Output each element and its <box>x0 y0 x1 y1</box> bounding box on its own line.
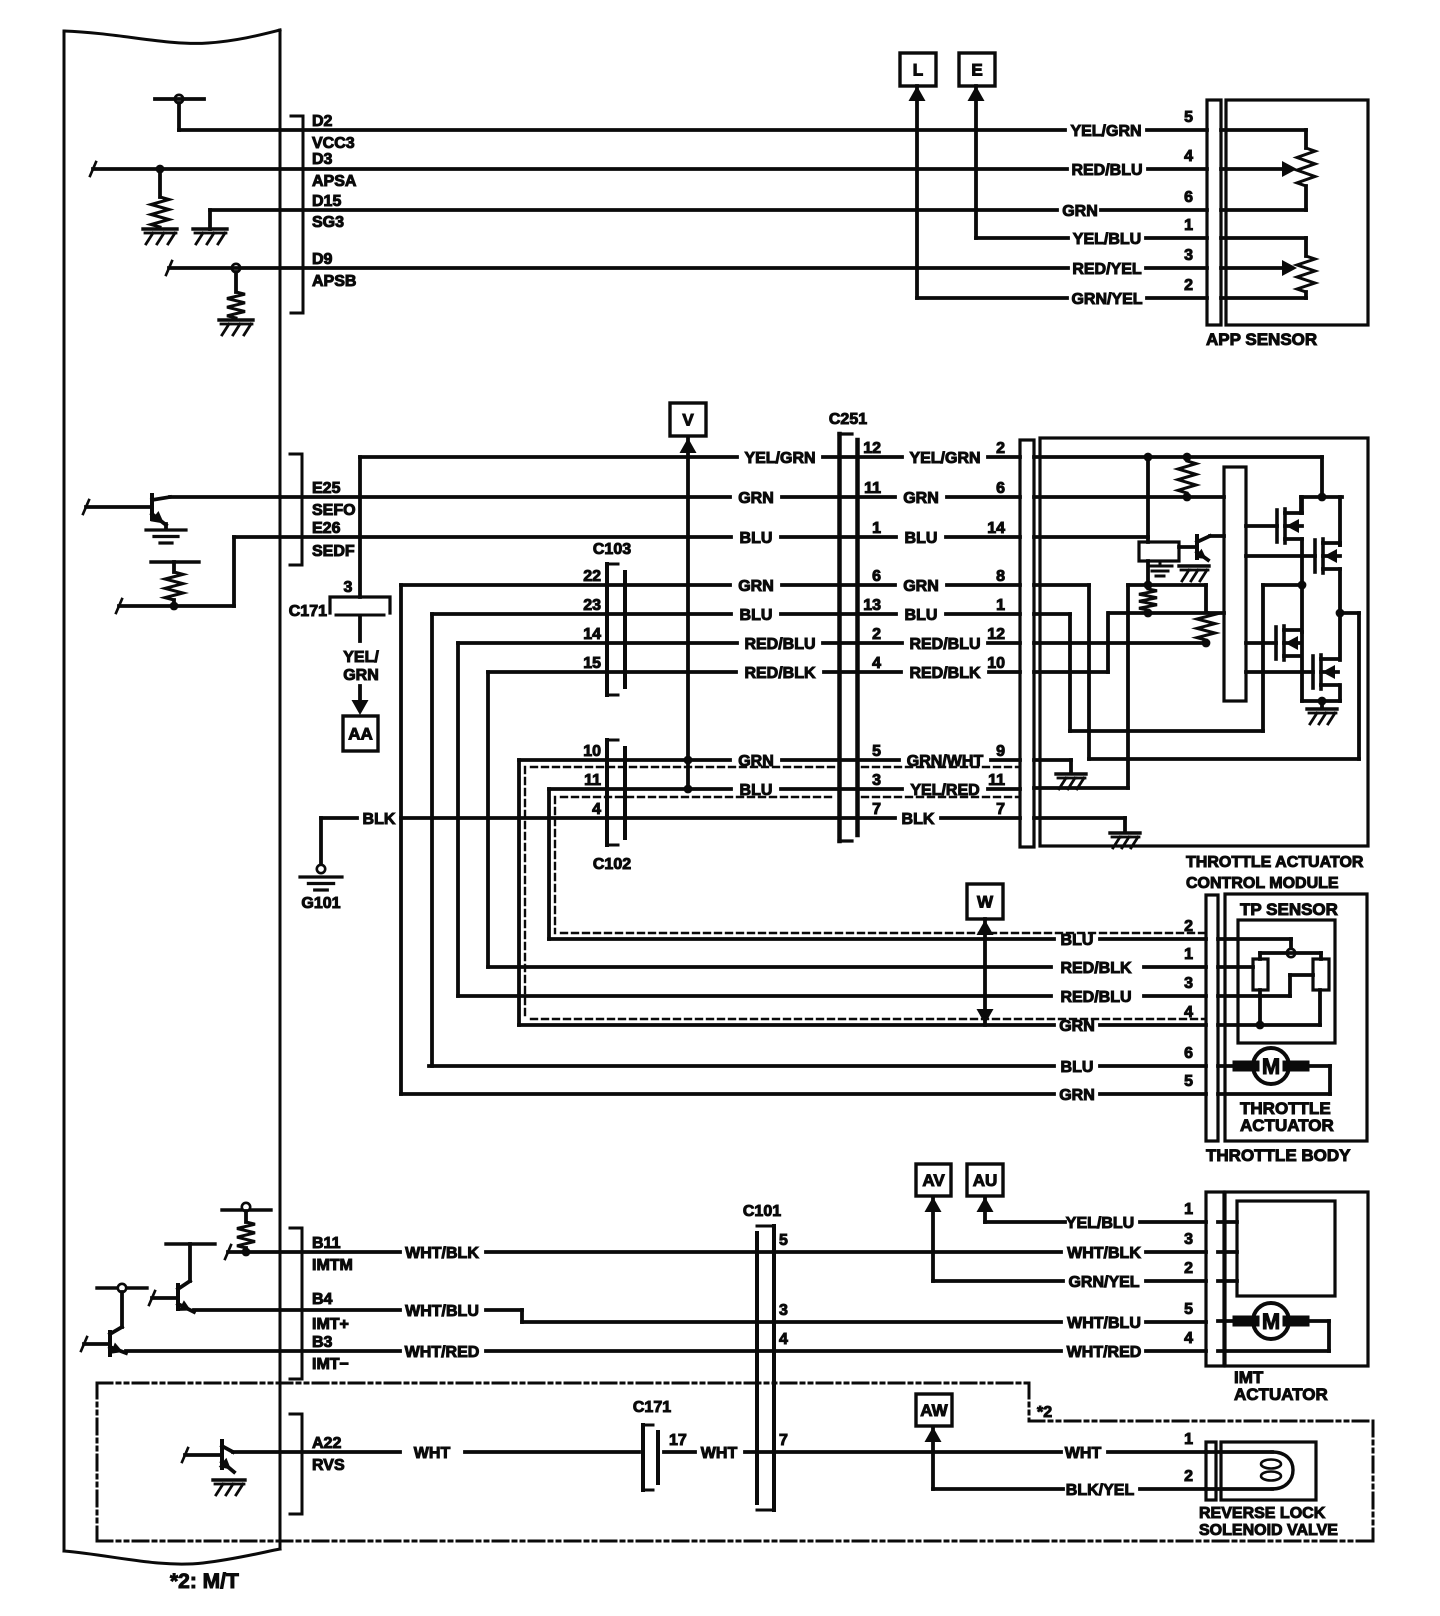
svg-text:E25: E25 <box>312 480 341 497</box>
svg-text:AU: AU <box>973 1171 998 1190</box>
svg-text:BLU: BLU <box>740 607 773 624</box>
svg-text:15: 15 <box>583 655 601 672</box>
svg-text:E: E <box>971 61 982 80</box>
svg-text:B3: B3 <box>312 1334 333 1351</box>
svg-text:3: 3 <box>872 772 881 789</box>
svg-text:YEL/BLU: YEL/BLU <box>1073 231 1141 248</box>
svg-text:22: 22 <box>583 568 601 585</box>
svg-text:RED/BLU: RED/BLU <box>1060 989 1131 1006</box>
svg-text:YEL/: YEL/ <box>343 649 379 666</box>
svg-text:IMTM: IMTM <box>312 1257 353 1274</box>
svg-text:5: 5 <box>1184 1301 1193 1318</box>
svg-text:WHT: WHT <box>701 1445 738 1462</box>
svg-text:GRN: GRN <box>1059 1018 1095 1035</box>
svg-text:YEL/GRN: YEL/GRN <box>744 450 815 467</box>
svg-text:13: 13 <box>863 597 881 614</box>
svg-text:W: W <box>977 893 994 912</box>
svg-text:AW: AW <box>920 1401 948 1420</box>
svg-text:GRN: GRN <box>1062 203 1098 220</box>
svg-text:THROTTLE ACTUATOR: THROTTLE ACTUATOR <box>1186 854 1364 871</box>
svg-text:GRN: GRN <box>738 490 774 507</box>
svg-text:4: 4 <box>779 1331 788 1348</box>
svg-text:APSB: APSB <box>312 273 356 290</box>
svg-text:8: 8 <box>996 568 1005 585</box>
svg-text:1: 1 <box>872 520 881 537</box>
svg-text:23: 23 <box>583 597 601 614</box>
svg-text:3: 3 <box>1184 975 1193 992</box>
svg-text:YEL/GRN: YEL/GRN <box>1070 123 1141 140</box>
svg-text:C251: C251 <box>829 411 867 428</box>
svg-text:17: 17 <box>669 1432 687 1449</box>
svg-text:GRN: GRN <box>903 578 939 595</box>
svg-text:2: 2 <box>1184 1260 1193 1277</box>
svg-text:D3: D3 <box>312 151 333 168</box>
svg-text:THROTTLE BODY: THROTTLE BODY <box>1206 1146 1351 1165</box>
svg-text:GRN/YEL: GRN/YEL <box>1071 291 1142 308</box>
svg-text:2: 2 <box>1184 1468 1193 1485</box>
svg-text:RED/BLK: RED/BLK <box>744 665 816 682</box>
svg-text:4: 4 <box>872 655 881 672</box>
svg-text:12: 12 <box>863 440 881 457</box>
svg-text:C102: C102 <box>593 856 631 873</box>
svg-text:WHT/BLU: WHT/BLU <box>405 1303 479 1320</box>
svg-text:WHT/BLK: WHT/BLK <box>405 1245 479 1262</box>
svg-text:11: 11 <box>584 772 601 789</box>
svg-text:ACTUATOR: ACTUATOR <box>1234 1385 1328 1404</box>
svg-text:RVS: RVS <box>312 1457 345 1474</box>
svg-text:RED/BLU: RED/BLU <box>1071 162 1142 179</box>
svg-text:E26: E26 <box>312 520 341 537</box>
svg-text:BLK/YEL: BLK/YEL <box>1066 1482 1135 1499</box>
svg-text:C171: C171 <box>633 1399 671 1416</box>
svg-text:APP SENSOR: APP SENSOR <box>1206 330 1317 349</box>
svg-text:CONTROL MODULE: CONTROL MODULE <box>1186 875 1339 892</box>
svg-text:5: 5 <box>779 1232 788 1249</box>
svg-text:1: 1 <box>1184 946 1193 963</box>
svg-text:12: 12 <box>987 626 1005 643</box>
svg-text:7: 7 <box>779 1432 788 1449</box>
svg-text:BLU: BLU <box>905 607 938 624</box>
svg-text:*2: *2 <box>1037 1404 1052 1421</box>
svg-text:SG3: SG3 <box>312 214 344 231</box>
svg-text:GRN: GRN <box>1059 1087 1095 1104</box>
svg-text:V: V <box>682 411 694 430</box>
svg-text:D2: D2 <box>312 113 333 130</box>
svg-text:G101: G101 <box>301 895 340 912</box>
svg-text:B4: B4 <box>312 1291 333 1308</box>
svg-text:L: L <box>913 61 923 80</box>
svg-text:10: 10 <box>583 743 601 760</box>
svg-text:5: 5 <box>1184 109 1193 126</box>
svg-text:11: 11 <box>864 480 881 497</box>
svg-text:1: 1 <box>1184 217 1193 234</box>
svg-text:BLU: BLU <box>1061 932 1094 949</box>
svg-text:11: 11 <box>988 772 1005 789</box>
svg-text:2: 2 <box>1184 277 1193 294</box>
svg-text:3: 3 <box>779 1302 788 1319</box>
svg-text:AV: AV <box>922 1171 945 1190</box>
svg-text:WHT: WHT <box>1065 1445 1102 1462</box>
svg-text:C171: C171 <box>289 603 327 620</box>
svg-text:WHT/RED: WHT/RED <box>405 1344 480 1361</box>
svg-text:4: 4 <box>592 801 601 818</box>
svg-text:D9: D9 <box>312 251 333 268</box>
svg-text:BLU: BLU <box>905 530 938 547</box>
svg-text:C103: C103 <box>593 541 631 558</box>
svg-text:WHT/RED: WHT/RED <box>1067 1344 1142 1361</box>
svg-text:14: 14 <box>987 520 1005 537</box>
svg-text:APSA: APSA <box>312 173 357 190</box>
svg-text:6: 6 <box>872 568 881 585</box>
svg-text:9: 9 <box>996 743 1005 760</box>
svg-text:GRN/YEL: GRN/YEL <box>1068 1274 1139 1291</box>
svg-text:3: 3 <box>1184 1231 1193 1248</box>
svg-text:1: 1 <box>1184 1431 1193 1448</box>
svg-text:WHT/BLU: WHT/BLU <box>1067 1315 1141 1332</box>
svg-text:A22: A22 <box>312 1435 341 1452</box>
svg-text:6: 6 <box>1184 189 1193 206</box>
svg-text:SEDF: SEDF <box>312 543 355 560</box>
svg-text:SOLENOID VALVE: SOLENOID VALVE <box>1199 1522 1338 1539</box>
svg-text:RED/BLK: RED/BLK <box>909 665 981 682</box>
svg-text:D15: D15 <box>312 193 341 210</box>
svg-text:2: 2 <box>872 626 881 643</box>
svg-text:B11: B11 <box>312 1235 341 1252</box>
svg-text:YEL/GRN: YEL/GRN <box>909 450 980 467</box>
svg-text:YEL/BLU: YEL/BLU <box>1066 1215 1134 1232</box>
svg-text:6: 6 <box>996 480 1005 497</box>
svg-text:BLU: BLU <box>1061 1059 1094 1076</box>
svg-text:BLU: BLU <box>740 530 773 547</box>
svg-text:GRN: GRN <box>343 667 379 684</box>
svg-text:3: 3 <box>1184 247 1193 264</box>
svg-text:*2: M/T: *2: M/T <box>170 1570 239 1593</box>
svg-text:2: 2 <box>1184 918 1193 935</box>
svg-text:5: 5 <box>872 743 881 760</box>
svg-text:BLU: BLU <box>740 782 773 799</box>
svg-text:WHT: WHT <box>414 1445 451 1462</box>
svg-text:RED/BLU: RED/BLU <box>744 636 815 653</box>
svg-text:AA: AA <box>348 725 373 744</box>
svg-text:ACTUATOR: ACTUATOR <box>1240 1116 1334 1135</box>
svg-text:GRN: GRN <box>903 490 939 507</box>
svg-text:5: 5 <box>1184 1073 1193 1090</box>
svg-text:4: 4 <box>1184 1330 1193 1347</box>
svg-text:IMT+: IMT+ <box>312 1316 349 1333</box>
svg-text:WHT/BLK: WHT/BLK <box>1067 1245 1141 1262</box>
svg-text:GRN: GRN <box>738 578 774 595</box>
svg-text:RED/BLU: RED/BLU <box>909 636 980 653</box>
svg-text:3: 3 <box>344 579 353 596</box>
svg-text:1: 1 <box>1184 1201 1193 1218</box>
svg-text:TP SENSOR: TP SENSOR <box>1240 900 1338 919</box>
svg-text:VCC3: VCC3 <box>312 135 355 152</box>
svg-text:IMT−: IMT− <box>312 1356 349 1373</box>
svg-text:4: 4 <box>1184 1004 1193 1021</box>
svg-text:2: 2 <box>996 440 1005 457</box>
svg-text:C101: C101 <box>743 1203 781 1220</box>
svg-text:1: 1 <box>996 597 1005 614</box>
svg-text:REVERSE LOCK: REVERSE LOCK <box>1199 1505 1326 1522</box>
svg-text:4: 4 <box>1184 148 1193 165</box>
svg-text:RED/YEL: RED/YEL <box>1072 261 1142 278</box>
svg-text:10: 10 <box>987 655 1005 672</box>
svg-text:7: 7 <box>872 801 881 818</box>
svg-text:M: M <box>1262 1309 1280 1334</box>
svg-text:RED/BLK: RED/BLK <box>1060 960 1132 977</box>
svg-text:14: 14 <box>583 626 601 643</box>
svg-text:6: 6 <box>1184 1045 1193 1062</box>
svg-text:SEFO: SEFO <box>312 502 356 519</box>
svg-text:BLK: BLK <box>902 811 935 828</box>
svg-text:BLK: BLK <box>363 811 396 828</box>
svg-text:7: 7 <box>996 801 1005 818</box>
svg-text:M: M <box>1262 1054 1280 1079</box>
